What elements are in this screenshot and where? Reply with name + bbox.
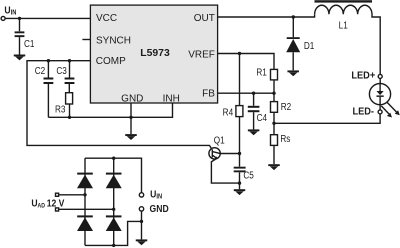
capacitor C2 — [47, 61, 49, 78]
wire OUT line — [218, 14, 315, 17]
wire Q1 emitter — [211, 159, 239, 184]
svg-text:Rs: Rs — [280, 132, 290, 144]
ground C5 — [239, 183, 241, 189]
node UIN input terminal — [1, 16, 5, 20]
resistor R4 — [236, 106, 243, 117]
ground GND pin — [125, 134, 137, 140]
wire LED- return to Rs — [274, 114, 380, 123]
svg-text:L1: L1 — [339, 19, 348, 31]
capacitor C1 — [19, 18, 21, 31]
svg-text:C1: C1 — [24, 37, 34, 49]
wire VREF to R4 — [239, 54, 241, 106]
diode D1 — [292, 17, 294, 37]
resistor R3 — [66, 93, 73, 104]
svg-text:R1: R1 — [256, 65, 266, 77]
junction top rail right leg — [112, 157, 115, 160]
junction C5 bottom — [238, 181, 241, 184]
junction C2 top — [47, 59, 50, 62]
svg-text:C5: C5 — [243, 169, 253, 181]
capacitor C5 — [239, 154, 241, 167]
junction C4 tap — [252, 92, 255, 95]
svg-text:VCC: VCC — [96, 13, 117, 24]
terminal UAD lower — [56, 208, 59, 211]
svg-text:LED-: LED- — [352, 106, 374, 118]
ground C1 — [14, 55, 26, 61]
wire GND pin stub — [130, 103, 132, 134]
wire FB line — [218, 92, 274, 94]
svg-text:R4: R4 — [223, 105, 233, 117]
svg-text:INH: INH — [163, 93, 180, 104]
wire R1 to R2 — [273, 80, 275, 102]
node GND output — [139, 207, 143, 211]
svg-text:UAD12 V: UAD12 V — [31, 198, 65, 210]
junction bridge mid-right — [112, 208, 115, 211]
junction C3 top — [68, 59, 71, 62]
capacitor C3 — [69, 61, 71, 78]
svg-text:GND: GND — [121, 93, 143, 104]
bridge diode bottom-right — [106, 215, 122, 217]
bridge rectifier left leg — [84, 158, 86, 245]
svg-text:FB: FB — [202, 88, 215, 99]
svg-text:LED+: LED+ — [351, 70, 375, 82]
node LED- — [378, 110, 382, 114]
resistor R1 — [271, 69, 278, 80]
inductor L1 core bar — [315, 0, 373, 2]
svg-text:COMP: COMP — [96, 56, 126, 67]
wire COMP to C2 C3 and rail to Q1 base — [27, 61, 212, 150]
wire SYNCH stub — [82, 39, 90, 41]
junction bridge mid-left — [83, 193, 86, 196]
bridge rectifier right leg — [113, 158, 115, 245]
svg-text:C3: C3 — [56, 64, 66, 76]
junction bottom rail right leg — [112, 244, 115, 247]
wire Q1 collector — [220, 153, 239, 155]
node LED+ — [378, 74, 382, 78]
bridge diode top-right — [106, 173, 122, 175]
svg-text:R2: R2 — [281, 100, 291, 112]
svg-text:C4: C4 — [257, 111, 267, 123]
bridge diode bottom-left — [77, 215, 93, 217]
svg-text:SYNCH: SYNCH — [96, 36, 131, 47]
ground bridge — [141, 221, 143, 239]
svg-text:GND: GND — [150, 203, 169, 215]
svg-text:R3: R3 — [55, 103, 65, 115]
svg-text:OUT: OUT — [194, 13, 215, 24]
junction D1 — [292, 15, 295, 18]
wire R2 to Rs — [273, 112, 275, 134]
wire UAD upper to bridge — [59, 194, 85, 196]
wire bridge top rail — [85, 158, 142, 193]
svg-text:Q1: Q1 — [214, 133, 225, 145]
ground C4 — [248, 129, 260, 135]
junction C1 tap — [18, 17, 21, 20]
node UIN output — [139, 193, 143, 197]
wire Rs to ground — [273, 145, 275, 164]
capacitor C4 — [253, 93, 255, 106]
ground Rs — [268, 164, 280, 170]
IC U1 L5973 — [90, 5, 217, 103]
ground D1 — [287, 70, 299, 76]
wire LED+ to LED — [379, 79, 381, 84]
junction FB divider — [272, 92, 275, 95]
transistor Q1 — [209, 148, 220, 159]
terminal UAD upper — [56, 193, 59, 196]
svg-text:C2: C2 — [35, 64, 45, 76]
LED arrow 1 — [387, 102, 397, 112]
svg-text:L5973: L5973 — [140, 48, 170, 59]
junction R4 tap — [238, 52, 241, 55]
junction bridge ground — [140, 220, 143, 223]
LED LED1 — [369, 84, 390, 105]
wire UAD lower to bridge — [59, 208, 114, 210]
wire R4 to Q1 collector — [239, 117, 241, 154]
wire GND node stub — [141, 211, 143, 221]
wire VREF line — [218, 54, 274, 70]
wire UIN to VCC — [5, 17, 90, 19]
junction R3 bottom — [68, 116, 71, 119]
svg-text:VREF: VREF — [188, 49, 215, 60]
junction GND pin — [129, 116, 132, 119]
resistor R2 — [271, 102, 278, 113]
wire bridge bottom rail — [85, 221, 142, 245]
LED arrow 2 — [381, 106, 389, 114]
resistor Rs — [271, 135, 278, 146]
junction R2 Rs LED return — [272, 122, 275, 125]
wire C2 R3 GND to INH — [48, 103, 172, 117]
bridge diode top-left — [77, 173, 93, 175]
svg-text:D1: D1 — [304, 39, 314, 51]
inductor L1 — [315, 5, 381, 74]
junction Q1 collector — [238, 152, 241, 155]
